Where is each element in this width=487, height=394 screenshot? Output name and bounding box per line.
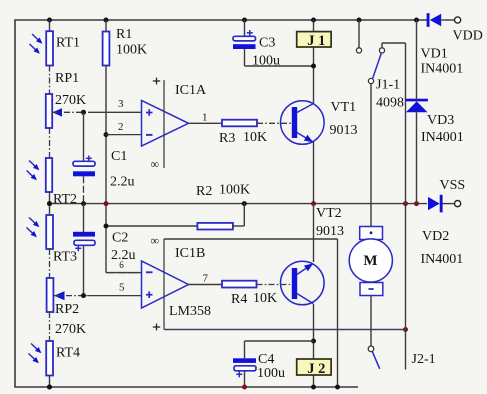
C1 polarity plus — [86, 157, 92, 159]
svg-text:C3: C3 — [259, 36, 275, 51]
svg-text:IN4001: IN4001 — [421, 62, 464, 77]
wire C3 top lead — [244, 20, 246, 37]
svg-text:100K: 100K — [116, 43, 147, 58]
J1-1 right contact — [379, 48, 384, 53]
J1-1 left contact — [356, 48, 361, 53]
wire RP2-RT4 — [49, 312, 51, 341]
svg-text:IN4001: IN4001 — [421, 130, 464, 145]
svg-text:VT2: VT2 — [316, 206, 342, 221]
transistor VT1 — [281, 101, 325, 145]
wire IC1B output pin7 — [189, 284, 223, 286]
wire motor bottom lead — [370, 296, 372, 347]
svg-text:J 2: J 2 — [307, 361, 325, 377]
IC1A minus input mark — [146, 134, 153, 136]
wire RT1-RP1 — [49, 66, 51, 95]
svg-text:10K: 10K — [243, 130, 267, 145]
wire C4 top lead — [244, 341, 246, 358]
light arrows RT1 — [32, 34, 41, 43]
svg-text:1: 1 — [202, 112, 208, 124]
C3 polarity plus — [247, 32, 253, 34]
svg-text:2: 2 — [118, 121, 124, 133]
IC1B rail plus tick — [153, 326, 160, 328]
wire motor top lead — [370, 84, 372, 227]
svg-text:RP1: RP1 — [55, 71, 79, 86]
wire R4 to VT2 base — [257, 284, 293, 286]
svg-text:VD2: VD2 — [422, 229, 449, 244]
node pin5 junction — [81, 293, 86, 298]
svg-text:4098: 4098 — [376, 96, 404, 111]
svg-text:2.2u: 2.2u — [110, 175, 135, 190]
resistor R1 — [103, 32, 110, 66]
svg-text:∞: ∞ — [151, 234, 160, 248]
svg-text:C2: C2 — [112, 231, 128, 246]
circuit outer border frame — [15, 20, 427, 387]
svg-text:RT1: RT1 — [56, 36, 80, 51]
light arrows RT3 — [29, 218, 38, 227]
svg-text:M: M — [363, 253, 377, 269]
wire C3 bottom lead — [244, 49, 246, 66]
wire navy bottom rail — [164, 329, 406, 331]
svg-text:C4: C4 — [258, 352, 274, 367]
IC1B plus input mark — [146, 294, 153, 296]
svg-text:R3: R3 — [219, 131, 235, 146]
wire R1 top lead — [105, 20, 107, 32]
wire IC1A pin3 input — [52, 111, 88, 113]
capacitor C3 — [233, 36, 256, 41]
motor bottom terminal — [360, 283, 383, 296]
photoresistor RT1 — [46, 31, 53, 65]
svg-text:VT1: VT1 — [331, 100, 357, 115]
transistor VT2 — [281, 261, 325, 305]
J1-1 common contact — [368, 78, 373, 83]
svg-text:RT2: RT2 — [53, 192, 77, 207]
svg-text:IC1A: IC1A — [175, 83, 207, 98]
wire VSS rail — [50, 203, 428, 205]
wire IC1A output pin1 — [189, 122, 223, 124]
photoresistor RT3 — [46, 215, 53, 249]
wire C2 bottom lead — [83, 245, 85, 295]
svg-text:J1-1: J1-1 — [376, 78, 400, 93]
wire IC1A pin2 input — [106, 134, 142, 136]
wire VT1 collector lead — [313, 66, 315, 104]
svg-text:J2-1: J2-1 — [412, 352, 436, 367]
svg-text:3: 3 — [118, 98, 124, 110]
svg-text:RT3: RT3 — [53, 250, 77, 265]
capacitor C1 — [73, 161, 95, 166]
potentiometer RP1 — [46, 94, 52, 128]
diode VD3 — [406, 99, 428, 102]
svg-text:J 1: J 1 — [307, 33, 325, 49]
svg-text:VD3: VD3 — [427, 113, 454, 128]
wire R3 to VT1 base — [257, 122, 292, 124]
node VSS rail junction dots — [47, 201, 52, 206]
VDD terminal — [455, 17, 461, 23]
svg-text:10K: 10K — [253, 291, 277, 306]
svg-text:RP2: RP2 — [55, 302, 79, 317]
svg-text:∞: ∞ — [151, 157, 160, 171]
node pin2 junction — [104, 132, 109, 137]
svg-text:100K: 100K — [219, 183, 250, 198]
IC1A power rail — [163, 80, 165, 168]
wire right column — [405, 43, 407, 370]
svg-text:IN4001: IN4001 — [421, 252, 464, 267]
svg-text:6: 6 — [119, 260, 124, 270]
J2-1 lever — [372, 352, 379, 369]
wire RP1-RT2 — [49, 128, 51, 158]
wire RT1 top lead — [49, 20, 51, 31]
photoresistor RT2 — [46, 158, 52, 192]
relay coil J2 box — [297, 359, 331, 375]
resistor R3 — [222, 120, 257, 127]
node RT2-RT3 junction — [47, 201, 52, 206]
wire VD3 column lower — [416, 112, 418, 203]
wire VT2 emitter lead — [313, 204, 315, 262]
light arrows RT4 — [31, 344, 40, 353]
J2-1 moving contact — [368, 346, 374, 352]
wire C1 bottom lead — [83, 176, 85, 203]
svg-text:270K: 270K — [55, 93, 86, 108]
light arrows RT2 — [29, 161, 38, 170]
C4 polarity plus — [236, 373, 242, 375]
wire RT3-RP2 — [49, 249, 51, 278]
wire IC1B pin6 input — [106, 272, 142, 274]
capacitor C2 — [73, 232, 95, 237]
svg-text:IC1B: IC1B — [175, 246, 205, 261]
svg-text:270K: 270K — [55, 322, 86, 337]
svg-text:LM358: LM358 — [169, 304, 211, 319]
wire R2 left lead — [106, 225, 197, 227]
node R2 left junction — [104, 224, 109, 229]
resistor R2 — [197, 223, 233, 230]
svg-text:VD1: VD1 — [421, 47, 448, 62]
svg-text:R1: R1 — [116, 27, 132, 42]
node C4 wire junction — [311, 339, 316, 344]
wire R1 bottom column — [105, 66, 107, 273]
IC1A plus input mark — [146, 112, 153, 114]
op-amp IC1A triangle — [142, 101, 189, 147]
photoresistor RT4 — [46, 341, 53, 376]
wire C1 top lead — [83, 112, 85, 161]
C2 polarity plus — [75, 247, 81, 249]
node bottom rail junction dots — [47, 385, 52, 390]
svg-text:VDD: VDD — [453, 29, 483, 44]
motor M body — [349, 239, 392, 282]
diode VD2 — [428, 197, 440, 210]
diode VD1 — [430, 14, 441, 27]
wiper arrow RP1 — [52, 108, 62, 116]
resistor R4 — [222, 281, 257, 288]
wire VD3 column upper — [416, 20, 418, 99]
svg-text:R4: R4 — [231, 292, 247, 307]
relay coil J1 box — [297, 32, 331, 47]
wire RT4 bottom lead — [49, 376, 51, 388]
wire C2 top lead — [83, 204, 85, 232]
wire VT2 collector lead — [313, 304, 315, 387]
svg-text:9013: 9013 — [330, 123, 358, 138]
wire C4 bottom lead — [244, 371, 246, 387]
capacitor C4 — [233, 358, 256, 363]
IC1B box top edge — [164, 238, 338, 240]
IC1A rail plus tick — [153, 80, 160, 82]
svg-text:5: 5 — [119, 282, 125, 294]
node RT4-ground junction — [47, 385, 52, 390]
VSS terminal — [455, 201, 461, 207]
wire top supply rail VDD feed — [426, 19, 428, 21]
svg-text:VSS: VSS — [440, 178, 466, 193]
wire J1 coil line — [313, 20, 315, 66]
svg-text:100u: 100u — [257, 366, 285, 381]
motor top terminal — [360, 227, 383, 240]
J1-1 lever — [373, 54, 382, 79]
node top-rail junction dots — [47, 18, 52, 23]
op-amp IC1B triangle — [142, 261, 189, 308]
IC1B box right edge — [337, 239, 339, 387]
wire VT1 emitter lead — [313, 142, 315, 204]
wire J1-1 right throw to column — [381, 43, 383, 48]
svg-text:R2: R2 — [196, 184, 212, 199]
node pin3 junction — [81, 110, 86, 115]
potentiometer RP2 — [47, 278, 54, 312]
node C3-J1 junction — [311, 64, 316, 69]
wire RT2-RT3 — [49, 192, 51, 215]
wiper arrow RP2 — [54, 291, 65, 300]
wire J1-1 left throw lead — [358, 20, 360, 48]
node navy rail end junction — [403, 327, 408, 332]
wire IC1B pin5 input — [54, 295, 88, 297]
svg-text:C1: C1 — [111, 149, 127, 164]
svg-text:7: 7 — [203, 273, 209, 285]
svg-text:9013: 9013 — [316, 224, 344, 239]
svg-text:RT4: RT4 — [56, 346, 80, 361]
wire R2 right riser — [233, 225, 244, 227]
IC1B minus input mark — [146, 271, 153, 273]
IC1B power rail left edge — [163, 239, 165, 330]
